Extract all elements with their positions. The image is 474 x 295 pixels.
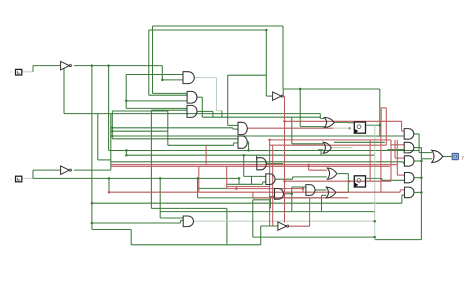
wire x380 drop bbox=[379, 89, 381, 137]
junction bbox=[108, 177, 111, 180]
wire x321 rise bbox=[321, 195, 323, 211]
wire red x206 bbox=[205, 145, 207, 164]
AND gate R2 bbox=[404, 142, 414, 153]
wire AND5 in1 run bbox=[244, 175, 266, 177]
wire AND2 in3 run bbox=[126, 100, 187, 102]
wire AND4 out bbox=[266, 163, 283, 165]
wire R2 in2 stub bbox=[388, 149, 405, 151]
AND gate R5 bbox=[405, 187, 415, 198]
wire x126 mid drop bbox=[125, 75, 127, 109]
wire x216 pale drop bbox=[216, 78, 218, 111]
wire AND5 out bbox=[275, 178, 293, 180]
wire NOT1 input bbox=[33, 65, 60, 67]
wire red R5 in1 bbox=[400, 189, 404, 191]
wire AND2 in1 stub bbox=[153, 92, 188, 94]
wire R4 out bbox=[414, 177, 421, 179]
junction bbox=[111, 127, 114, 130]
junction bbox=[247, 149, 250, 152]
wire OR3 out bbox=[337, 191, 349, 193]
wire box1 D stub bbox=[348, 122, 354, 124]
wire red x252 bbox=[252, 192, 254, 198]
wire R3 jog bbox=[402, 162, 404, 164]
wire x283 link bbox=[282, 89, 284, 95]
wire y145 run bbox=[168, 144, 234, 146]
wire OR in2 stub bbox=[421, 158, 432, 160]
wire red x198 bbox=[198, 166, 200, 192]
wire y161 run bbox=[111, 161, 403, 163]
wire OR in1 stub bbox=[419, 152, 432, 154]
wire red x386 bbox=[385, 108, 387, 145]
wire red x370 bbox=[369, 140, 371, 181]
wire red OR2 in1 bbox=[309, 169, 327, 171]
wire x197 drop bbox=[197, 178, 199, 198]
wire y211 run bbox=[160, 211, 375, 213]
junction bbox=[111, 135, 114, 138]
wire red OR2 hook bbox=[308, 165, 310, 171]
wire AND4 hook v bbox=[256, 155, 258, 160]
wire y89 run bbox=[283, 88, 380, 90]
wire NOT2 out bbox=[74, 169, 111, 171]
wire M2 in1 run bbox=[112, 138, 238, 140]
wire M1 jog bbox=[232, 128, 234, 129]
wire AND6 out bbox=[284, 193, 292, 195]
flip-flop U2 bbox=[354, 176, 365, 187]
wire red x303 bbox=[302, 189, 304, 193]
flip-flop U1 bbox=[354, 122, 365, 133]
wire red y107 bbox=[381, 107, 386, 109]
wire OR0 in2 stub bbox=[318, 149, 323, 151]
input pin P1 bbox=[10, 69, 21, 75]
wire pin2 run bbox=[33, 177, 239, 179]
wire x266 drop bbox=[265, 30, 267, 96]
wire x168 drop bbox=[167, 111, 169, 145]
wire red dot-y192 bbox=[108, 191, 111, 193]
wire y142 run bbox=[334, 141, 385, 143]
junction bbox=[125, 100, 128, 103]
wire OR0 out pale bbox=[331, 147, 352, 149]
wire red y197 bbox=[253, 197, 348, 199]
wire red y164 bbox=[111, 164, 398, 166]
wire red NOT3 out bbox=[283, 95, 286, 97]
junction bbox=[373, 236, 376, 239]
junction bbox=[265, 29, 268, 32]
wire AND6 hook bbox=[269, 196, 271, 208]
wire red R4 in1 bbox=[397, 174, 404, 176]
junction bbox=[307, 163, 310, 166]
wire x292 rise bbox=[292, 177, 294, 179]
wire AND7 in1 stub bbox=[292, 186, 306, 188]
wire R2 hook bbox=[387, 149, 389, 152]
wire red R5 jog bbox=[399, 190, 401, 192]
wire x221 drop bbox=[221, 111, 223, 118]
wire x374 pale bbox=[374, 125, 376, 239]
junction bbox=[125, 149, 128, 152]
wire y207 run bbox=[151, 207, 227, 209]
AND gate A8 bbox=[183, 216, 193, 227]
junction bbox=[348, 180, 351, 183]
wire AND1 out pale bbox=[194, 77, 216, 79]
AND gate A5 bbox=[266, 174, 275, 185]
wire red x401 bbox=[401, 121, 403, 131]
wire x348 drop2 bbox=[347, 174, 349, 182]
wire bus x421 bbox=[420, 148, 422, 240]
wire AND3 in1 run bbox=[126, 107, 187, 109]
wire y159 run bbox=[98, 159, 111, 161]
junction bbox=[108, 191, 111, 194]
wire x92 drop bbox=[91, 66, 93, 230]
AND gate R1 bbox=[404, 129, 414, 140]
wire x151 drop bbox=[150, 110, 152, 208]
wire x131 drop bbox=[130, 230, 132, 245]
wire y155 run bbox=[126, 154, 374, 156]
wire NOT4 in stub bbox=[261, 225, 278, 227]
junction bbox=[235, 187, 238, 190]
wire x248 drop bbox=[248, 142, 250, 151]
wire x126 drop2 bbox=[125, 151, 127, 156]
wire red x397 bbox=[396, 140, 398, 175]
wire y110 pale bbox=[217, 110, 222, 112]
AND gate R4 bbox=[405, 173, 415, 183]
wire OR1 hook bbox=[319, 114, 321, 119]
wire x382 jog bbox=[381, 178, 383, 180]
wire OR1 in1 stub bbox=[320, 117, 324, 119]
wire OR0 in1 stub bbox=[292, 143, 323, 145]
junction bbox=[238, 177, 241, 180]
wire AND7 in1 v bbox=[291, 187, 293, 212]
NOT gate N1 bbox=[61, 61, 72, 70]
wire AND5 in2 run bbox=[227, 183, 263, 185]
wire x243 drop bbox=[243, 155, 245, 176]
wire AND1 in2 stub bbox=[162, 79, 183, 81]
wire y26 run bbox=[153, 25, 284, 27]
wire pin1 riser bbox=[32, 66, 34, 72]
wire M1 in2 stub bbox=[233, 128, 238, 130]
wire red y188 bbox=[227, 188, 303, 190]
wire M2 out bbox=[247, 141, 248, 143]
wire AND8 in1 stub bbox=[160, 217, 183, 219]
wire x300 drop bbox=[299, 89, 301, 127]
wire R1 out bbox=[414, 133, 419, 135]
wire x283 drop bbox=[282, 26, 284, 89]
junction bbox=[91, 202, 94, 205]
wire red R2 in1 bbox=[391, 144, 404, 146]
junction bbox=[379, 124, 382, 127]
output pin Y bbox=[452, 154, 464, 160]
wire red x395 bbox=[394, 140, 396, 158]
wire red x284 bbox=[284, 96, 286, 223]
wire y239 run bbox=[375, 239, 422, 241]
wire x202 drop bbox=[201, 97, 203, 117]
AND gate M2 bbox=[238, 136, 247, 148]
wire box1 Q stub bbox=[366, 124, 380, 126]
wire x108 drop bbox=[108, 66, 110, 151]
wire AND8 in2 stub bbox=[181, 219, 184, 221]
wire AND5 in2 stub bbox=[263, 181, 266, 183]
wire x251 link bbox=[251, 176, 253, 184]
wire y136 run bbox=[112, 135, 404, 137]
junction bbox=[268, 139, 271, 142]
wire x213 drop bbox=[212, 111, 214, 117]
junction bbox=[420, 176, 423, 179]
wire red x391 bbox=[390, 140, 392, 181]
wire x227 drop bbox=[227, 75, 229, 125]
wire x348 jog bbox=[347, 121, 349, 124]
wire y131 run bbox=[112, 130, 168, 132]
wire M1 in1 stub bbox=[228, 124, 238, 126]
wire AND3 out bbox=[197, 110, 213, 112]
junction bbox=[196, 177, 199, 180]
wire x152 drop bbox=[152, 26, 154, 93]
wire x261 drop bbox=[260, 226, 262, 245]
AND gate R3 bbox=[404, 156, 414, 166]
wire AND7 out bbox=[315, 189, 326, 191]
wire red y192 bbox=[109, 191, 400, 193]
junction bbox=[161, 79, 164, 82]
junction bbox=[302, 187, 305, 190]
NOT gate N2 bbox=[61, 166, 72, 175]
wire R3 in2 stub bbox=[403, 162, 404, 164]
input pin P2 bbox=[10, 176, 21, 182]
wire NOT2 in stub bbox=[33, 169, 60, 171]
AND gate A6 bbox=[275, 189, 284, 200]
junction bbox=[283, 180, 286, 183]
wire x291 top bbox=[291, 117, 293, 144]
wire x162 drop bbox=[161, 66, 163, 80]
wire R5 out bbox=[414, 191, 421, 193]
OR gate O1 bbox=[324, 117, 334, 127]
junction bbox=[125, 154, 128, 157]
junction bbox=[420, 191, 423, 194]
wire y117 run bbox=[202, 116, 320, 118]
wire x321 link bbox=[320, 151, 322, 156]
wire x239 drop bbox=[238, 178, 240, 184]
OR gate O0 bbox=[323, 142, 331, 153]
wire y75 run bbox=[228, 74, 267, 76]
wire red y186 bbox=[227, 186, 271, 188]
wire y223 run bbox=[92, 222, 181, 224]
wire OR3 in2 stub bbox=[322, 194, 327, 196]
AND gate M1 bbox=[238, 122, 247, 134]
wire AND8 hook v bbox=[180, 220, 182, 223]
wire x109 drop bbox=[108, 178, 110, 192]
wire pale box1 in bbox=[333, 127, 350, 129]
wire M2 hook v bbox=[233, 143, 235, 145]
wire red x236 bbox=[235, 187, 237, 189]
wire x148 drop bbox=[148, 30, 150, 95]
AND gate A3 bbox=[187, 105, 197, 117]
wire x112 drop bbox=[111, 111, 113, 139]
wire y110 run bbox=[151, 109, 187, 111]
wire R2 out bbox=[414, 147, 422, 149]
wire R3 out bbox=[414, 160, 421, 162]
wire x64 drop bbox=[63, 68, 65, 114]
wire OR2 out bbox=[338, 173, 349, 175]
wire pin1 stub bbox=[22, 71, 33, 73]
wire x348 rise bbox=[347, 181, 349, 192]
wire box2 Q stub bbox=[366, 177, 383, 179]
junction bbox=[291, 193, 294, 196]
wire red x272 bbox=[272, 145, 274, 226]
wire x419 drop bbox=[418, 134, 420, 153]
wire y111 run bbox=[112, 110, 168, 112]
wire AND8 out pale bbox=[194, 220, 375, 222]
wire AND1 in1 run bbox=[126, 74, 183, 76]
wire y244 run bbox=[131, 244, 261, 246]
wire red R1 in1 bbox=[402, 130, 405, 132]
wire R5 hook bbox=[401, 195, 403, 203]
wire red M1 out bbox=[247, 127, 333, 129]
NOT gate N4 bbox=[278, 222, 289, 230]
junction bbox=[91, 222, 94, 225]
wire red x309 bbox=[309, 197, 311, 226]
OR gate OUT bbox=[432, 150, 443, 162]
wire AND5 hook bbox=[262, 182, 264, 184]
wire OR1 in2 stub bbox=[300, 126, 324, 128]
wire R5 in2 stub bbox=[402, 194, 405, 196]
wire AND6 in2 v bbox=[252, 200, 254, 237]
junction bbox=[159, 177, 162, 180]
AND gate A1 bbox=[183, 72, 194, 84]
junction bbox=[348, 127, 351, 130]
wire AND2 out bbox=[197, 96, 202, 98]
wire x97 drop bbox=[97, 114, 99, 160]
AND gate A2 bbox=[187, 91, 197, 103]
wire R4 in2 run bbox=[382, 179, 405, 181]
wire red x270 bbox=[269, 140, 271, 226]
OR gate O3 bbox=[326, 187, 336, 198]
wire x226 drop bbox=[226, 208, 228, 244]
wire y188 green bbox=[198, 187, 227, 189]
junction bbox=[299, 88, 302, 91]
wire NOT1 out run bbox=[74, 65, 163, 67]
wire OR1 out bbox=[334, 121, 348, 123]
wire y197 run bbox=[198, 197, 322, 199]
wire y229 run bbox=[92, 229, 131, 231]
wire y127 run bbox=[112, 127, 233, 129]
wire x110 spine bbox=[110, 114, 112, 171]
junction bbox=[373, 220, 376, 223]
wire y150 run bbox=[109, 150, 420, 152]
wire red x376 bbox=[380, 108, 382, 122]
wire y237 run bbox=[253, 236, 375, 238]
wire red x226 bbox=[226, 166, 228, 188]
wire M2 in2 stub bbox=[234, 142, 238, 144]
junction bbox=[91, 64, 94, 67]
wire red R3 in1 bbox=[395, 157, 404, 159]
wire red y181 bbox=[285, 180, 392, 182]
wire AND2 in2 run bbox=[149, 94, 187, 96]
NOT gate N3 bbox=[273, 92, 284, 100]
wire x160 drop bbox=[159, 178, 161, 218]
wire red y166 bbox=[111, 165, 390, 167]
wire red NOT4 out bbox=[289, 225, 309, 227]
OR gate O2 bbox=[327, 168, 337, 179]
wire AND6 in2 run bbox=[253, 199, 271, 201]
wire red y121 bbox=[285, 120, 402, 122]
wire y30 run bbox=[149, 29, 266, 31]
wire OR0 jog bbox=[317, 149, 319, 152]
wire AND4 in1 stub bbox=[256, 159, 258, 161]
junction bbox=[107, 64, 110, 67]
wire red y139 bbox=[270, 139, 391, 141]
wire y203 run bbox=[92, 202, 402, 204]
wire pin2 stub bbox=[22, 177, 33, 179]
junction bbox=[283, 120, 286, 123]
AND gate A7 bbox=[306, 185, 315, 196]
wire NOT3 in stub bbox=[266, 95, 272, 97]
wire AND6 in2 stub bbox=[270, 195, 274, 197]
junction bbox=[420, 160, 423, 163]
wire OR2 in2 stub bbox=[293, 176, 327, 178]
AND gate A4 bbox=[257, 158, 267, 170]
wire pin2 riser bbox=[32, 170, 34, 178]
junction bbox=[242, 154, 245, 157]
wire red x380 bbox=[380, 121, 382, 192]
wire AND3 in2 run bbox=[64, 113, 320, 115]
junction bbox=[111, 130, 114, 133]
wire red y144 bbox=[270, 144, 387, 146]
wire OR out bbox=[443, 156, 452, 158]
